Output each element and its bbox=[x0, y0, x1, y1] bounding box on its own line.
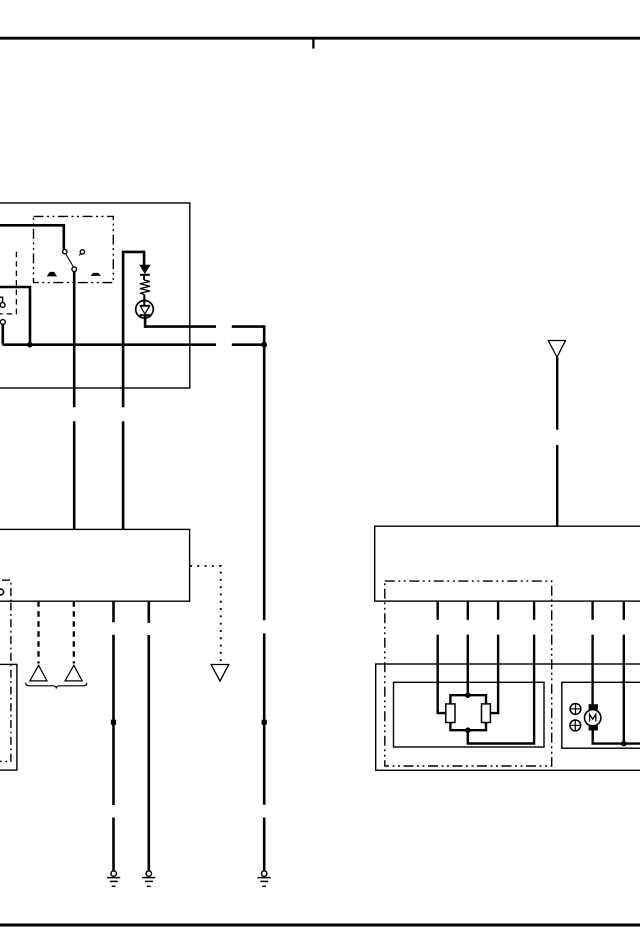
wire: motor w5 feed bbox=[591, 635, 593, 705]
junction top rail bbox=[465, 692, 471, 698]
wire: motor return to junction bbox=[593, 731, 640, 744]
wire: left switch output down bbox=[1, 324, 4, 344]
resistor bottom rail bbox=[450, 723, 486, 731]
enclosure: lighting switch (dash-dot-dot box) bbox=[34, 216, 114, 282]
junction motor return bbox=[621, 741, 627, 747]
underbrace bbox=[26, 683, 87, 689]
diode cathode bar bbox=[140, 274, 150, 276]
resistor R-right bbox=[482, 704, 491, 723]
block: control unit (middle-left, cut off at left) bbox=[0, 529, 190, 601]
wire: fan w2 stub bbox=[467, 601, 469, 620]
wire: motor w5 stub bbox=[591, 601, 593, 620]
wire: right ground drop segment 3 bbox=[263, 818, 266, 872]
switch position mark (left) bbox=[48, 272, 57, 276]
shield triangle 2 bbox=[65, 665, 82, 681]
switch blade bbox=[66, 254, 74, 267]
junction at ground bus bbox=[261, 342, 267, 348]
block: combination light switch unit (top-left, cut off at left) bbox=[0, 203, 190, 388]
wire: right ground drop segment 1 bbox=[263, 345, 266, 621]
block: lower outer box (motor assembly, cut off at right) bbox=[376, 664, 640, 770]
motor brush top bbox=[589, 704, 598, 710]
shield triangle 1 bbox=[30, 665, 47, 681]
dash-dot enclosure left lower bbox=[0, 603, 11, 762]
enclosure: inner dash-dot bracket in control unit bbox=[2, 580, 11, 601]
wire: fan w4 to resistor bottom bbox=[468, 635, 534, 744]
lamp triangle bbox=[140, 306, 149, 314]
wire: left switch lower contact flag bbox=[0, 297, 3, 302]
block: motor inner box (cut off at right) bbox=[562, 682, 640, 748]
wire: feed drop seg 1 bbox=[556, 357, 558, 429]
switch contact (right) bbox=[80, 250, 84, 254]
wire: main ground bus bbox=[3, 343, 216, 346]
ground G3 bbox=[258, 871, 271, 886]
ground G1 bbox=[107, 871, 120, 886]
wire: motor w6 stub bbox=[623, 601, 625, 620]
wire: fan w1 stub bbox=[437, 601, 439, 620]
shielded wire 1 (dashed) bbox=[37, 601, 39, 663]
wire: motor w6 return bbox=[623, 635, 625, 744]
splice marker on right drop bbox=[262, 720, 267, 725]
lamp (LED) circle bbox=[136, 301, 154, 319]
wire: ground drop 1 seg 1 bbox=[112, 601, 115, 622]
wire: fan w1 to resistor bbox=[438, 635, 446, 714]
junction at feed bbox=[27, 342, 33, 348]
block: lower-left unit (cut off) bbox=[0, 664, 17, 770]
junction bottom rail bbox=[465, 727, 471, 733]
wire: ground bus after connector bbox=[232, 343, 264, 346]
wire: ground drop 1 seg 2 bbox=[112, 635, 115, 805]
wire: feed drop seg 2 bbox=[556, 445, 558, 526]
wire: lamp output after connector bbox=[232, 327, 264, 345]
wire: feed into lighting switch bbox=[0, 225, 64, 249]
bottom frame line bbox=[0, 924, 640, 927]
top frame tick bbox=[312, 40, 314, 49]
block: resistor inner box bbox=[394, 682, 545, 747]
screw symbol 2 bbox=[570, 720, 581, 731]
screw symbol 1 bbox=[570, 704, 581, 715]
antenna triangle (power feed) bbox=[548, 341, 565, 358]
splice marker on ground drop 1 bbox=[111, 720, 116, 725]
resistor top rail bbox=[450, 695, 486, 704]
ground G2 bbox=[142, 871, 155, 886]
left switch contact 2 bbox=[0, 320, 5, 325]
wire: lamp branch lower segment bbox=[122, 421, 125, 529]
motor brush bottom bbox=[589, 725, 598, 731]
switch position mark (right) bbox=[91, 273, 100, 275]
wire: switch output down (upper segment) bbox=[73, 272, 76, 408]
switch contact (left) bbox=[63, 249, 67, 253]
block: fan control unit (right, cut off at right) bbox=[375, 526, 640, 601]
wire: right ground drop segment 2 bbox=[263, 633, 266, 804]
switch pivot bbox=[72, 267, 77, 272]
wire: lamp branch riser bbox=[123, 252, 144, 407]
top frame line bbox=[0, 37, 640, 40]
wire: switch output down (lower segment) bbox=[73, 421, 76, 529]
wire: ground drop 1 seg 3 bbox=[112, 818, 115, 872]
wire: feed to junction bbox=[0, 287, 30, 345]
resistor coil bbox=[140, 280, 150, 294]
lamp bottom bar bbox=[140, 314, 151, 316]
lamp triangle top bar bbox=[140, 305, 149, 307]
motor M1 bbox=[585, 710, 601, 726]
enclosure: dash-dot-dot option box (resistor assembly) bbox=[385, 581, 552, 766]
wire: resistor to lamp bbox=[143, 294, 145, 305]
left switch contact 1 bbox=[0, 303, 5, 308]
wire: diode to resistor bbox=[143, 276, 145, 280]
wire: ground drop 2 seg 1 bbox=[148, 601, 151, 623]
wire: ground drop 2 seg 2 bbox=[148, 635, 151, 871]
reference arrow triangle bbox=[211, 665, 229, 682]
diode bbox=[140, 265, 150, 273]
wire: lamp output bbox=[145, 315, 216, 326]
wire: fan w4 stub bbox=[533, 601, 535, 620]
wire: fan w2 to resistor top rail bbox=[467, 635, 469, 696]
contact in control unit bbox=[0, 589, 4, 595]
resistor R-left bbox=[446, 704, 455, 723]
wire: fan w3 stub bbox=[497, 601, 499, 620]
shielded wire 2 (dashed) bbox=[73, 601, 75, 663]
contact tail bbox=[79, 254, 81, 256]
wire: fan w3 to resistor bbox=[490, 635, 498, 714]
dashed box (left switch enclosure) bbox=[0, 252, 16, 314]
dotted reference line bbox=[190, 566, 221, 662]
